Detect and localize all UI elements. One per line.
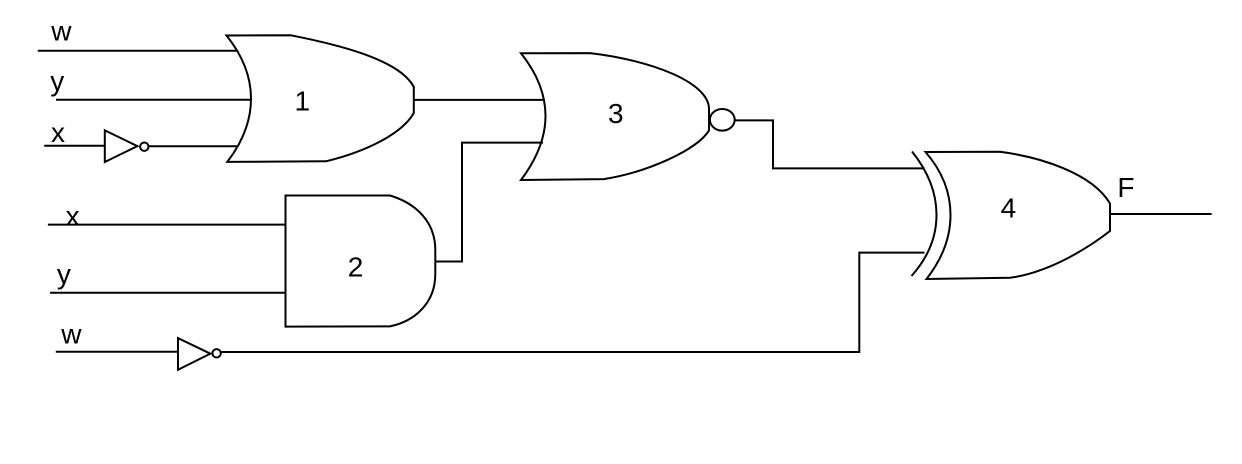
wire x to AND gate 2 [48, 224, 287, 226]
svg-text:y: y [57, 259, 71, 290]
OR gate 1 [227, 35, 414, 162]
wire F output [1110, 213, 1211, 215]
wire y to OR gate 1 [56, 99, 250, 101]
wire w to OR gate 1 [38, 50, 237, 52]
svg-text:w: w [50, 15, 72, 46]
wire inverter output riser to XOR gate 4 [221, 253, 925, 352]
svg-text:2: 2 [348, 251, 364, 282]
svg-text:x: x [51, 117, 65, 148]
inverter bubble [140, 143, 148, 151]
inverter (NOT) on x input [105, 130, 138, 162]
wire gate 2 output riser to NOR gate 3 [436, 143, 543, 262]
wire x to inverter [44, 145, 105, 147]
wire y to AND gate 2 [50, 292, 286, 294]
wire w to inverter [56, 351, 178, 353]
svg-text:1: 1 [295, 86, 311, 117]
svg-text:x: x [66, 200, 80, 231]
XOR gate 4 input double-curve [912, 152, 937, 277]
svg-text:3: 3 [608, 98, 624, 129]
inverter bubble [212, 349, 220, 357]
svg-text:4: 4 [1001, 192, 1017, 223]
NOR gate 3 [521, 53, 709, 180]
svg-text:F: F [1117, 172, 1134, 203]
wire gate 1 output to NOR gate 3 [414, 99, 543, 101]
wire gate 3 output to XOR gate 4 [735, 120, 925, 168]
wire inverter output to OR gate 1 [149, 145, 238, 147]
gate 3 output bubble [710, 109, 735, 131]
AND gate 2 [286, 196, 436, 327]
XOR gate 4 body [926, 152, 1111, 279]
inverter (NOT) on w input [178, 338, 210, 370]
svg-text:w: w [60, 319, 82, 350]
svg-text:y: y [50, 65, 64, 96]
